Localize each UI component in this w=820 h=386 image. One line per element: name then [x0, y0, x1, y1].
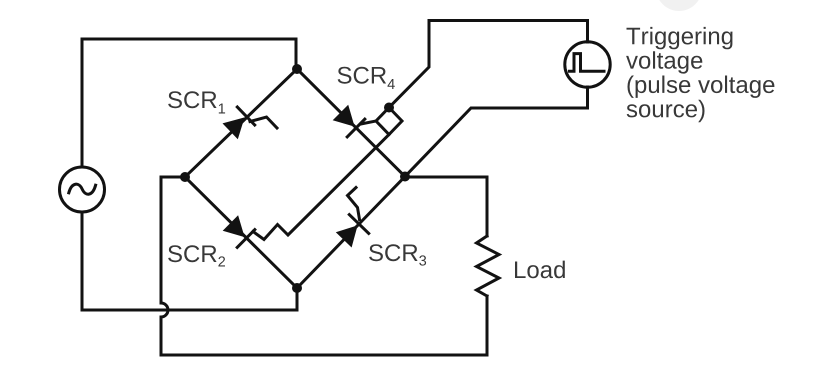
node L junction: [180, 172, 190, 182]
faint artifact blob: [656, 0, 702, 11]
label SCR4: [338, 67, 395, 89]
wire: bridge branch B-R (SCR3 branch): [297, 177, 405, 289]
thyristor SCR2: [223, 215, 255, 247]
wire: AC source top lead, left rail up, top rail, riser down to node T: [82, 39, 296, 167]
resistor Load: [477, 236, 500, 296]
node B junction: [292, 283, 302, 293]
wire: trigger source top lead to gate node G: [389, 21, 588, 108]
wire: bridge branch T-R (SCR4 branch): [297, 69, 405, 177]
wire: node R to load top lead: [405, 177, 487, 236]
label SCR2: [168, 245, 225, 266]
AC source: [60, 167, 105, 212]
thyristor SCR4: [333, 105, 365, 137]
wire: bridge branch L-B (SCR2 branch): [185, 177, 297, 288]
node G junction: [384, 103, 394, 113]
node R junction: [400, 172, 410, 182]
label Load: [515, 261, 565, 279]
wire: trigger source bottom lead to node R: [405, 87, 588, 177]
label Triggering voltage (pulse voltage source): [626, 27, 774, 122]
thyristor SCR3: [336, 188, 369, 248]
node T junction: [292, 64, 302, 74]
label SCR1: [168, 91, 225, 113]
wire: node L stub left, left drop rail with hop, bottom-most rail, load bottom lead: [161, 177, 487, 355]
thyristor SCR1: [223, 107, 278, 139]
wire: SCR4 gate loop to node G: [361, 108, 402, 135]
wire: bridge branch T-L (SCR1 branch): [185, 69, 297, 177]
wire: gate link with zigzag from SCR2 gate to SCR4 gate loop: [253, 135, 389, 240]
label SCR3: [369, 244, 426, 265]
trigger pulse source: [565, 42, 610, 87]
wire: AC source bottom lead, bottom rail right, riser up to node B: [82, 212, 297, 310]
